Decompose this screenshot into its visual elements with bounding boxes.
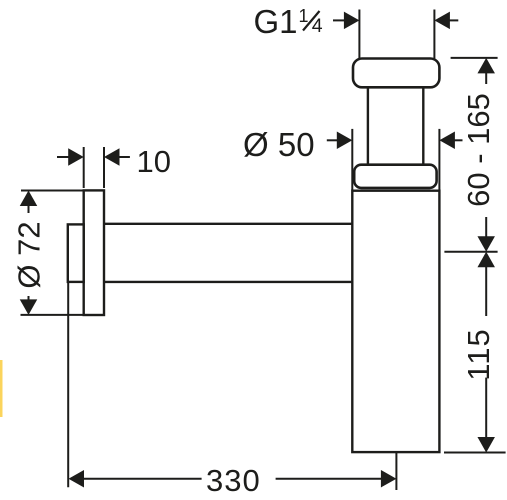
svg-text:60 - 165: 60 - 165 (461, 93, 496, 207)
dimension G1 1/4 arrow right (434, 12, 450, 30)
dimension 330 line left segment (83, 478, 202, 480)
lower collar nut (354, 165, 436, 188)
dimension 10 arrow left (68, 148, 84, 166)
dimension 10 arrow right (104, 148, 120, 166)
dimension 10 extension line left (83, 147, 85, 188)
dimension D50 leader left (327, 139, 339, 141)
dimension D50 leader right (453, 139, 463, 141)
dimension 330 line right segment (276, 478, 383, 480)
dimension D50 extension line left (351, 129, 353, 190)
dimension G1 1/4 arrow left (344, 12, 360, 30)
thread pipe G1 1/4 (top, outline doubles as extension lines) (359, 10, 434, 59)
dimension 115 line lower segment (485, 378, 487, 439)
mid pipe between collars (368, 87, 423, 164)
dimension D72 arrow up (20, 191, 38, 207)
dimension 60-165 line lower segment (485, 217, 487, 239)
dimension 10 extension line right (103, 147, 105, 188)
dimension 10 leader left (57, 156, 70, 158)
horizontal outlet pipe (104, 224, 352, 282)
dimension 115 arrow down (477, 437, 495, 453)
dimension 60-165 arrow down (477, 236, 495, 252)
dimension 115 line upper segment (485, 265, 487, 316)
dimension 330 extension line right (body centerline) (395, 452, 397, 490)
dimension D50 arrow left (337, 132, 353, 150)
label fraction slash (303, 11, 320, 31)
dimension D72 top reference line (21, 190, 84, 192)
svg-text:Ø 72: Ø 72 (12, 221, 47, 288)
svg-text:4: 4 (312, 15, 323, 37)
dimension 330 extension line left (67, 283, 69, 487)
svg-text:G1: G1 (254, 3, 298, 40)
dimension D72 bottom reference line (21, 314, 85, 316)
dimension G1 1/4 leader left (333, 19, 346, 21)
svg-text:330: 330 (206, 463, 261, 498)
highlight bar (yellow) (0, 360, 3, 417)
middle reference line (pipe axis level) (444, 251, 497, 253)
dimension D72 line upper segment (28, 204, 30, 213)
dimension 60-165 line upper segment (485, 72, 487, 85)
dimension 10 leader right (118, 156, 130, 158)
svg-text:115: 115 (461, 328, 496, 380)
dimension 115 arrow up (477, 252, 495, 268)
dimension D72 line lower segment (28, 296, 30, 302)
dimension 60-165 top reference line (451, 57, 498, 59)
dimension 330 arrow right (381, 470, 397, 488)
dimension D72 arrow down (20, 299, 38, 315)
wall flange (84, 190, 104, 315)
dimension 60-165 arrow up (477, 58, 495, 74)
trap body cylinder (352, 191, 439, 452)
svg-text:1: 1 (299, 6, 309, 26)
dimension 330 arrow left (69, 470, 85, 488)
top collar nut (353, 59, 439, 88)
dimension D50 extension line right (438, 129, 440, 190)
dimension G1 1/4 leader right (448, 19, 458, 21)
dimension D50 arrow right (439, 132, 455, 150)
wall pipe stub (68, 224, 84, 282)
svg-text:10: 10 (137, 144, 171, 179)
svg-text:Ø 50: Ø 50 (243, 126, 315, 163)
bottom reference line (body base level) (444, 452, 506, 454)
